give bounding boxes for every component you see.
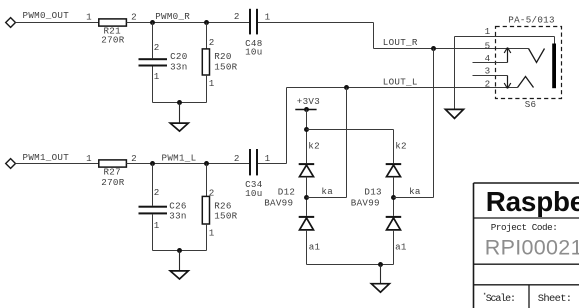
svg-text:1: 1 (154, 220, 160, 231)
svg-text:1: 1 (209, 78, 215, 89)
tick mark before Scale (484, 293, 485, 295)
node junction R26 top (204, 161, 209, 166)
pin 3 stub (473, 75, 508, 77)
svg-text:k2: k2 (308, 140, 320, 151)
resistor R21 (99, 19, 127, 26)
capacitor C48 (249, 9, 258, 35)
svg-text:1: 1 (154, 71, 160, 82)
svg-text:33n: 33n (170, 61, 187, 72)
title block left border (473, 183, 475, 308)
wire 3V3 down to D13 (393, 130, 395, 164)
wire D12 to gnd rail (306, 230, 308, 265)
wire gnd rail bottom filter (153, 250, 207, 252)
wire junction down to R26 (206, 164, 208, 197)
svg-text:2: 2 (154, 42, 160, 53)
title block line 2 (474, 217, 579, 219)
wire 3V3 branch to D13 (307, 129, 394, 131)
svg-text:D12: D12 (278, 187, 295, 198)
wire D13 mid (393, 177, 395, 216)
node gnd rail bottom filter (177, 248, 182, 253)
switch arrow up (504, 48, 511, 63)
wire C48 to corner (258, 22, 374, 24)
svg-text:2: 2 (131, 11, 137, 22)
title block line 4 (474, 284, 579, 286)
svg-text:2: 2 (485, 78, 491, 89)
wire pin1 to ground (454, 37, 456, 110)
wire LOUT_R (374, 48, 529, 50)
svg-text:PWM1_L: PWM1_L (162, 152, 197, 163)
svg-text:1: 1 (86, 153, 92, 164)
svg-text:RPI00021: RPI00021 (485, 235, 579, 259)
pin 1 wire (455, 37, 555, 44)
capacitor C34 (249, 149, 258, 175)
wire PWM0_OUT to R21 (16, 22, 99, 24)
ground top filter (170, 103, 188, 132)
resistor R27 (99, 160, 127, 167)
svg-text:270R: 270R (101, 35, 124, 46)
svg-text:10u: 10u (245, 47, 262, 58)
wire corner up to LOUT_L (286, 88, 288, 164)
wire gnd rail top filter (153, 102, 207, 104)
contact right channel V (529, 49, 545, 63)
wire +3V3 down to D12 (306, 110, 308, 164)
resistor R26 (202, 196, 209, 224)
svg-text:2: 2 (131, 153, 137, 164)
svg-text:1: 1 (86, 11, 92, 22)
svg-text:2: 2 (209, 37, 215, 48)
wire R21 to C48 (126, 22, 249, 24)
svg-text:a1: a1 (309, 241, 321, 252)
svg-text:BAV99: BAV99 (351, 197, 380, 208)
svg-text:3: 3 (485, 65, 491, 76)
wire LOUT_R drop (433, 49, 435, 198)
svg-text:ka: ka (321, 186, 333, 197)
capacitor C26 (139, 206, 168, 215)
svg-text:PWM1_OUT: PWM1_OUT (23, 152, 70, 163)
switch arrow down (504, 76, 511, 89)
jack plug bar (552, 44, 556, 89)
node junction R20 top (204, 20, 209, 25)
resistor R20 (202, 49, 209, 75)
wire PWM1_L down to C26 (152, 164, 154, 206)
svg-text:1: 1 (265, 153, 271, 164)
svg-text:Scale:: Scale: (486, 293, 515, 305)
svg-text:S6: S6 (525, 99, 537, 110)
svg-text:BAV99: BAV99 (264, 197, 293, 208)
title block top line (474, 182, 579, 184)
wire LOUT_L (287, 87, 518, 89)
svg-text:PA-5/013: PA-5/013 (508, 15, 555, 26)
node LOUT_R junction (431, 46, 436, 51)
node gnd rail top filter (177, 100, 182, 105)
wire diode gnd rail (307, 264, 394, 266)
contact left channel hat (518, 77, 534, 88)
wire D13 to gnd rail (393, 230, 395, 265)
diode D13 lower (386, 216, 402, 230)
wire junction down to R20 (206, 23, 208, 49)
wire R27 to C34 (126, 163, 249, 165)
svg-text:LOUT_L: LOUT_L (383, 77, 418, 88)
svg-text:LOUT_R: LOUT_R (383, 37, 418, 48)
node ka of D12 (304, 195, 309, 200)
svg-text:+3V3: +3V3 (297, 96, 320, 107)
port PWM1_OUT (6, 159, 16, 169)
wire C20 to gnd rail (152, 67, 154, 103)
wire LOUT_L drop (346, 88, 348, 198)
wire corner down (373, 23, 375, 49)
svg-text:1: 1 (209, 228, 215, 239)
ground bottom filter (170, 251, 188, 280)
svg-text:k2: k2 (395, 140, 407, 151)
svg-text:PWM0_R: PWM0_R (155, 11, 190, 22)
wire C34 to corner (258, 163, 287, 165)
svg-text:10u: 10u (245, 188, 262, 199)
wire ka D12 to LOUT_L drop (307, 197, 347, 199)
wire PWM1_OUT to R27 (16, 163, 99, 165)
title block line 3 (474, 263, 579, 265)
wire R20 to gnd rail (206, 75, 208, 103)
wire ka D13 to LOUT_R drop (394, 197, 434, 199)
svg-text:2: 2 (234, 153, 240, 164)
diode D12 lower (299, 216, 315, 230)
wire D12 mid (306, 177, 308, 216)
svg-text:5: 5 (485, 40, 491, 51)
diode D13 upper (386, 163, 402, 177)
svg-text:ka: ka (409, 186, 421, 197)
wire C26 to gnd rail (152, 214, 154, 250)
node PWM0_R (150, 20, 155, 25)
svg-text:2: 2 (234, 11, 240, 22)
node LOUT_L junction (344, 85, 349, 90)
svg-text:PWM0_OUT: PWM0_OUT (23, 10, 70, 21)
ground connector (445, 109, 463, 118)
diode D12 upper (299, 163, 315, 177)
svg-text:150R: 150R (214, 211, 237, 222)
svg-text:a1: a1 (395, 241, 407, 252)
node PWM1_L (150, 161, 155, 166)
svg-text:1: 1 (265, 12, 271, 23)
node 3V3 branch (304, 127, 309, 132)
svg-text:270R: 270R (101, 177, 124, 188)
svg-text:Project Code:: Project Code: (491, 222, 558, 233)
node diode gnd rail (378, 262, 383, 267)
svg-text:Raspberr: Raspberr (486, 186, 579, 217)
node ka of D13 (391, 195, 396, 200)
port PWM0_OUT (6, 18, 16, 28)
ground diodes (371, 265, 389, 293)
svg-text:150R: 150R (214, 61, 237, 72)
svg-text:2: 2 (154, 187, 160, 198)
svg-text:Sheet:: Sheet: (538, 293, 572, 305)
power +3V3 (295, 96, 320, 112)
svg-text:1: 1 (485, 26, 491, 37)
wire R26 to gnd rail (206, 224, 208, 251)
pin 4 stub (473, 62, 508, 64)
connector S6 dashed body (496, 27, 562, 99)
capacitor C20 (139, 58, 168, 66)
wire PWM0_R down to C20 (152, 23, 154, 59)
svg-text:D13: D13 (364, 187, 381, 198)
title block divider (528, 285, 530, 308)
svg-text:33n: 33n (169, 211, 186, 222)
